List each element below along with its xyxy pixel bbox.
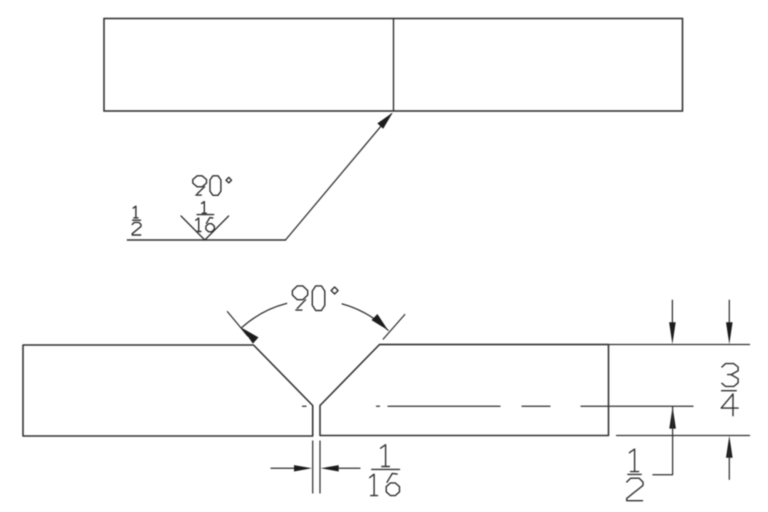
thickness dim lower arrowhead	[726, 436, 733, 458]
left bevel extension line	[227, 312, 247, 336]
top surface line / extension	[380, 344, 750, 346]
root gap extension line left	[312, 441, 314, 493]
angle arc arrowhead right	[372, 314, 389, 330]
bottom edge extension line	[617, 435, 750, 437]
top plate outline	[104, 19, 683, 112]
angle dimension arc left	[242, 303, 287, 327]
depth dim upper arrow line	[671, 300, 673, 331]
root opening label 1/16 (symbol)	[202, 202, 207, 214]
angle dimension arc right	[342, 304, 388, 330]
groove depth label 1/2 (symbol)	[133, 206, 138, 218]
leader line	[286, 114, 392, 240]
left plate (section)	[23, 345, 313, 436]
root depth centre line	[303, 405, 694, 407]
groove angle label 90 deg (symbol)	[193, 176, 207, 195]
weld symbol reference line	[127, 239, 285, 241]
depth dim upper arrowhead	[669, 322, 676, 344]
root opening dim line left	[271, 467, 296, 469]
thickness dim upper arrow line	[728, 300, 730, 331]
V-groove weld symbol	[181, 216, 229, 240]
angle arc arrowhead left	[242, 328, 259, 344]
thickness dim upper arrowhead	[726, 322, 733, 344]
root opening dim line right	[337, 467, 360, 469]
root opening arrow right	[321, 465, 339, 471]
right plate (section)	[320, 345, 609, 436]
depth dim leader	[653, 407, 673, 475]
thickness label 3/4 (section)	[722, 364, 738, 387]
root opening label 1/16 (section)	[381, 445, 390, 467]
groove angle label 90 deg (section)	[292, 286, 307, 310]
root opening arrow left	[294, 465, 312, 471]
thickness dim lower line	[728, 450, 730, 479]
depth dim lower arrowhead	[669, 407, 676, 429]
butt joint line	[393, 19, 395, 112]
leader arrowhead	[377, 113, 393, 129]
root gap extension line right	[319, 441, 321, 493]
depth label 1/2 (section)	[629, 449, 638, 472]
right bevel extension line	[383, 315, 405, 340]
